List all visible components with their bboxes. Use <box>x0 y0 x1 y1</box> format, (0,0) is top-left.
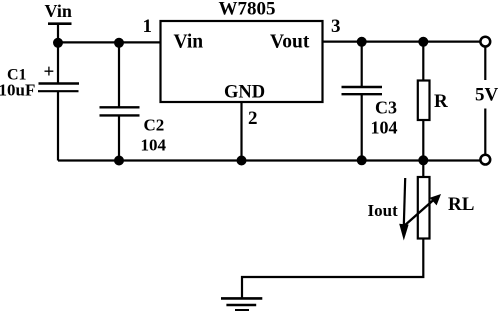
junction: input rail at C2 <box>114 38 124 48</box>
svg-text:Iout: Iout <box>368 201 399 220</box>
wire: input rail (top left horizontal) <box>58 41 161 43</box>
resistor R <box>418 42 430 161</box>
terminal output return (bottom right) <box>480 155 490 165</box>
capacitor C2 <box>100 42 140 160</box>
wire: RL bottom to ground symbol <box>242 239 423 298</box>
svg-text:+: + <box>44 62 55 83</box>
svg-text:10uF: 10uF <box>0 80 35 99</box>
svg-text:1: 1 <box>143 16 153 37</box>
wire: Vin terminal down to input rail <box>57 24 59 43</box>
svg-text:104: 104 <box>141 136 167 155</box>
ground (earth symbol) <box>221 298 262 310</box>
wire: Vout rail (top right horizontal) <box>323 40 481 42</box>
current arrow Iout <box>399 178 408 241</box>
svg-text:C2: C2 <box>144 116 165 135</box>
capacitor C1 (polarized) <box>38 42 79 160</box>
capacitor C3 <box>342 42 383 161</box>
junction: ground rail at C2 <box>114 156 124 166</box>
terminal Vin (input terminal bar) <box>48 22 72 25</box>
svg-text:Vin: Vin <box>45 1 72 21</box>
svg-text:GND: GND <box>224 82 265 102</box>
wire: output terminal vertical link (upper segment) <box>484 47 486 80</box>
resistor RL (variable load) <box>402 160 441 238</box>
svg-text:104: 104 <box>371 118 398 138</box>
svg-text:Vout: Vout <box>270 31 310 52</box>
wire: ground rail (bottom horizontal) <box>58 159 480 161</box>
junction: Vout rail at C3 <box>357 37 367 47</box>
IC U1 W7805 regulator body <box>161 21 323 102</box>
junction: Vout rail at R <box>418 37 428 47</box>
wire: GND pin 2 down to ground rail <box>240 102 242 161</box>
svg-text:W7805: W7805 <box>219 0 276 20</box>
wire: output terminal vertical link (lower segment) <box>484 109 486 155</box>
svg-text:5V: 5V <box>475 85 499 106</box>
svg-text:R: R <box>434 91 448 112</box>
junction: input rail at C1 <box>53 38 63 48</box>
svg-text:2: 2 <box>248 108 258 129</box>
junction: ground rail at R / RL <box>418 155 428 165</box>
junction: ground rail at pin 2 <box>237 156 247 166</box>
svg-text:Vin: Vin <box>174 31 204 52</box>
terminal +5V output (top right) <box>480 37 490 47</box>
junction: ground rail at C3 <box>357 155 367 165</box>
svg-text:RL: RL <box>448 194 474 215</box>
svg-text:C3: C3 <box>375 97 397 117</box>
svg-text:3: 3 <box>331 16 341 37</box>
